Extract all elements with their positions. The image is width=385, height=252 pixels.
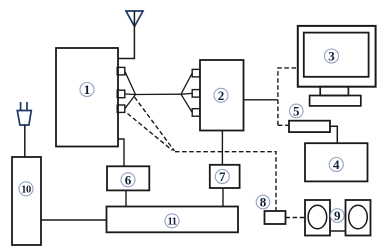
label 1 xyxy=(80,82,94,97)
block 5 xyxy=(289,121,330,132)
wire cable between block 1 and block 2 xyxy=(136,93,182,95)
svg-text:11: 11 xyxy=(168,217,177,228)
block 8 xyxy=(265,211,286,224)
wire fan-in from block 1 pins xyxy=(125,71,136,109)
label 3 xyxy=(325,49,339,64)
label 2 xyxy=(214,88,228,103)
monitor (block 3) xyxy=(298,26,376,106)
label 9 xyxy=(331,208,345,223)
svg-text:7: 7 xyxy=(219,169,226,184)
block 7 xyxy=(210,165,240,188)
block 2 xyxy=(200,60,244,131)
wire block 10 to block 11 xyxy=(41,219,107,221)
speaker left (block 9) xyxy=(305,200,330,236)
wire plug to block 10 xyxy=(24,125,26,157)
block 4 xyxy=(305,143,368,181)
label 8 xyxy=(256,195,270,210)
connector pins block 1 xyxy=(117,67,125,112)
power plug xyxy=(17,102,31,125)
connector pins block 2 xyxy=(192,69,200,116)
dashed bus to monitor and block 5 xyxy=(278,68,298,125)
wire block 2 to block 7 xyxy=(221,131,223,165)
svg-text:6: 6 xyxy=(125,172,132,187)
svg-text:1: 1 xyxy=(84,82,91,97)
svg-text:5: 5 xyxy=(293,104,300,119)
label 11 xyxy=(165,214,179,228)
label 4 xyxy=(329,157,343,172)
antenna xyxy=(126,11,143,27)
label 7 xyxy=(215,169,229,184)
dashed cable from bundle to bottom bus xyxy=(128,97,277,211)
svg-text:2: 2 xyxy=(218,88,225,103)
block 1 xyxy=(56,48,118,147)
svg-text:9: 9 xyxy=(334,208,341,223)
svg-text:4: 4 xyxy=(333,157,340,172)
label 10 xyxy=(19,182,33,196)
svg-text:8: 8 xyxy=(260,195,267,210)
block 11 xyxy=(107,207,239,233)
svg-text:10: 10 xyxy=(21,185,31,196)
svg-text:3: 3 xyxy=(328,49,335,64)
wire between speakers xyxy=(330,230,346,232)
wire block 5 to block 4 xyxy=(330,126,337,143)
wire block 2 to dashed bus xyxy=(244,99,278,101)
block 10 xyxy=(12,157,41,245)
wire block 1 to block 6 xyxy=(118,139,124,166)
wire block 6 to block 11 xyxy=(125,190,127,206)
wire fan-out to block 2 pins xyxy=(181,73,192,112)
label 6 xyxy=(121,172,135,187)
wire antenna to block 1 xyxy=(118,11,134,59)
speaker right (block 9) xyxy=(346,200,371,236)
dashed wire block 8 to speakers xyxy=(286,217,306,219)
label 5 xyxy=(290,104,304,119)
block 6 xyxy=(107,166,149,190)
wire block 7 to block 11 xyxy=(222,188,224,207)
